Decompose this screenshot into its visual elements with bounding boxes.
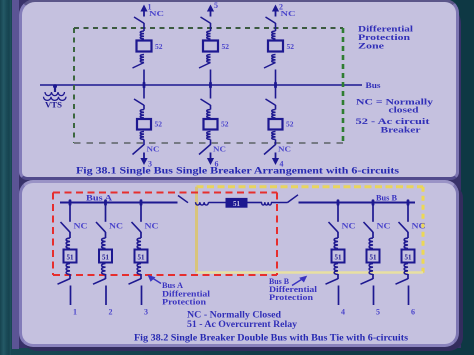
svg-text:52: 52 (287, 42, 295, 51)
svg-text:51: 51 (102, 253, 110, 261)
svg-text:5: 5 (376, 308, 380, 317)
svg-text:3: 3 (144, 308, 148, 317)
svg-text:NC: NC (412, 222, 426, 231)
svg-text:NC: NC (213, 145, 226, 154)
svg-text:2: 2 (109, 308, 113, 317)
svg-text:VTS: VTS (45, 101, 63, 110)
svg-text:52: 52 (155, 119, 163, 128)
svg-text:6: 6 (411, 308, 415, 317)
svg-text:NC: NC (281, 9, 296, 18)
svg-text:52: 52 (155, 42, 163, 51)
svg-text:NC: NC (74, 222, 88, 231)
svg-text:51: 51 (335, 253, 343, 261)
svg-text:51: 51 (67, 253, 75, 261)
svg-text:Bus: Bus (366, 80, 382, 90)
svg-text:52: 52 (286, 119, 294, 128)
svg-text:Bus B: Bus B (376, 194, 398, 203)
svg-text:1: 1 (73, 308, 77, 317)
svg-text:NC: NC (149, 9, 164, 18)
svg-text:Fig 38.1 Single Bus Single Bre: Fig 38.1 Single Bus Single Breaker Arran… (76, 167, 399, 177)
svg-text:Bus A: Bus A (86, 194, 112, 203)
svg-text:52: 52 (221, 119, 229, 128)
svg-text:5: 5 (214, 1, 218, 10)
svg-text:NC: NC (109, 222, 123, 231)
svg-text:NC: NC (147, 145, 160, 154)
svg-text:51: 51 (405, 253, 413, 261)
svg-text:4: 4 (341, 308, 345, 317)
svg-text:NC: NC (145, 222, 159, 231)
svg-text:51 - Ac Overcurrent Relay: 51 - Ac Overcurrent Relay (187, 319, 298, 329)
svg-text:Protection: Protection (269, 293, 314, 302)
svg-text:Protection: Protection (162, 298, 207, 307)
svg-text:NC: NC (278, 145, 291, 154)
svg-text:NC: NC (377, 222, 391, 231)
svg-text:NC: NC (342, 222, 356, 231)
svg-text:Breaker: Breaker (381, 124, 421, 134)
svg-text:NC - Normally Closed: NC - Normally Closed (187, 309, 281, 319)
svg-text:Zone: Zone (358, 41, 384, 51)
svg-text:51: 51 (370, 253, 378, 261)
svg-text:closed: closed (389, 105, 419, 115)
svg-text:51: 51 (138, 253, 146, 261)
svg-text:51: 51 (233, 200, 241, 208)
svg-text:52: 52 (222, 42, 230, 51)
svg-text:Fig 38.2 Single Breaker Double: Fig 38.2 Single Breaker Double Bus with … (134, 334, 408, 344)
